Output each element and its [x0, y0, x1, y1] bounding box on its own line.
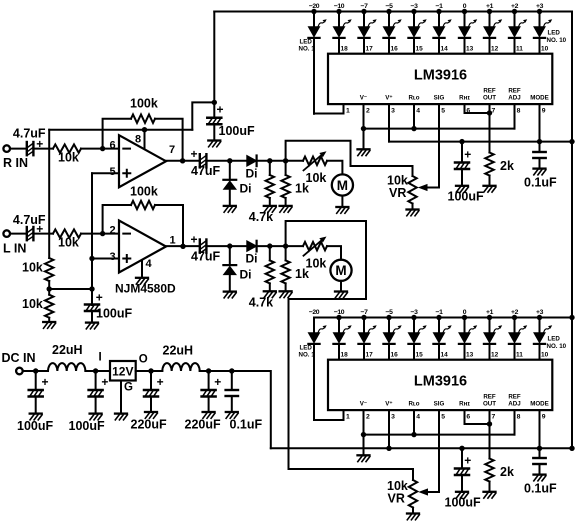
resistor R11 2k LED current set (upper) — [485, 153, 493, 176]
LED D3 −7 dB (upper) — [358, 12, 376, 38]
wire LED cathode to pin 18 (upper) — [338, 38, 340, 54]
wire R6 to ground — [48, 318, 50, 322]
wire pin2 V- to ground (lower) — [363, 410, 365, 455]
V+ rail (lower) — [271, 447, 572, 449]
regulator ground lead — [120, 381, 122, 414]
wire U1b output — [166, 245, 200, 247]
svg-text:−1: −1 — [436, 3, 444, 10]
svg-text:MODE: MODE — [530, 95, 549, 102]
svg-text:NJM4580D: NJM4580D — [115, 282, 176, 296]
node LED anode −1 (lower) — [436, 315, 441, 320]
svg-text:2k: 2k — [500, 159, 514, 173]
wire L input — [10, 233, 27, 235]
wire pin6 RHI to pin7 (upper) — [465, 104, 490, 113]
node LED anode +3 (upper) — [537, 9, 542, 14]
svg-text:18: 18 — [341, 46, 349, 53]
capacitor C11 220uF — [150, 371, 152, 390]
node pin4 on ground line (lower) — [411, 432, 416, 437]
LED D1 −20 dB (lower) — [308, 318, 326, 344]
node pin9 on V+ rail (upper) — [537, 139, 542, 144]
svg-text:47uF: 47uF — [191, 164, 221, 178]
svg-text:G: G — [124, 382, 133, 394]
svg-text:14: 14 — [441, 46, 449, 53]
ground R11 — [484, 186, 496, 192]
wire pin4 RLO stub (upper) — [413, 104, 415, 129]
svg-text:OUT: OUT — [483, 401, 496, 408]
capacitor C4 47uF coupling — [200, 240, 207, 253]
svg-text:+2: +2 — [511, 309, 519, 316]
ground C10 — [90, 414, 102, 420]
svg-text:NO. 10: NO. 10 — [547, 37, 567, 44]
node LED bus to right bus (lower) — [569, 315, 574, 320]
svg-text:10k: 10k — [306, 171, 327, 185]
svg-text:7: 7 — [492, 414, 496, 421]
svg-text:3: 3 — [391, 108, 395, 115]
capacitor C12 220uF — [208, 371, 210, 390]
svg-text:V⁻: V⁻ — [360, 95, 367, 102]
resistor R10 1k — [285, 246, 287, 260]
svg-text:17: 17 — [366, 352, 374, 359]
LED D8 +1 dB (lower) — [484, 318, 502, 344]
svg-text:12V: 12V — [112, 364, 133, 378]
svg-text:ADJ: ADJ — [508, 401, 521, 408]
svg-text:LM3916: LM3916 — [414, 68, 467, 84]
ground C9 — [30, 414, 42, 420]
node pin2 on ground line (upper) — [361, 126, 366, 131]
svg-text:2: 2 — [366, 108, 370, 115]
V+ branch wire to bias divider — [48, 130, 50, 258]
node V+ rail / C7 (upper) — [459, 139, 464, 144]
resistor R1 10k — [53, 144, 81, 152]
svg-text:13: 13 — [466, 352, 474, 359]
svg-text:100k: 100k — [130, 97, 158, 111]
svg-text:4: 4 — [416, 108, 420, 115]
wire LED cathode to pin 10 (lower) — [539, 344, 541, 360]
svg-text:+: + — [101, 375, 108, 389]
node pin3 on V+ rail (lower) — [386, 446, 391, 451]
node U1b output / feedback — [180, 244, 185, 249]
V+ riser wire to top rail — [192, 102, 214, 129]
node LED anode −5 (lower) — [386, 315, 391, 320]
svg-text:NO. 1: NO. 1 — [299, 45, 316, 52]
wire LED cathode to pin 13 (lower) — [464, 344, 466, 360]
LED D2 −10 dB (upper) — [333, 12, 351, 38]
ground U1b pin4 — [136, 278, 148, 284]
capacitor C7 100uF (upper) — [461, 142, 463, 163]
wire R input — [10, 148, 27, 150]
wire LED1 cathode down left side (upper) — [313, 38, 315, 114]
resistor R2 10k — [53, 229, 81, 237]
svg-text:−3: −3 — [411, 309, 419, 316]
svg-text:MODE: MODE — [530, 401, 549, 408]
node LED anode −5 (upper) — [386, 9, 391, 14]
pot VR3 10k level adjust (upper) — [408, 176, 416, 204]
LED D1 −20 dB (upper) — [308, 12, 326, 38]
LED D9 +2 dB (upper) — [509, 12, 527, 38]
wire LED cathode to pin 13 (upper) — [464, 38, 466, 54]
node regulator input / C10 — [93, 368, 98, 373]
svg-text:5: 5 — [110, 166, 116, 178]
bias rail vertical (half supply) — [91, 173, 93, 305]
LED D5 −3 dB (upper) — [408, 12, 426, 38]
wire pin2 V- to ground (upper) — [363, 104, 365, 149]
wire C2 to R2 — [33, 233, 53, 235]
wire C3 to rectifier R — [206, 160, 246, 162]
capacitor C3 47uF coupling — [200, 154, 207, 167]
svg-text:Rʜɪ: Rʜɪ — [459, 401, 470, 408]
svg-text:−20: −20 — [309, 309, 320, 316]
svg-text:V⁻: V⁻ — [360, 401, 367, 408]
svg-text:−5: −5 — [386, 3, 394, 10]
capacitor C9 100uF input filter — [35, 371, 37, 390]
wire LED cathode to pin 11 (lower) — [514, 344, 516, 360]
node LED anode +1 (upper) — [487, 9, 492, 14]
svg-text:10k: 10k — [58, 236, 79, 250]
svg-text:6: 6 — [466, 414, 470, 421]
svg-text:100k: 100k — [130, 185, 158, 199]
svg-text:−10: −10 — [334, 309, 345, 316]
wire regulator output — [136, 370, 163, 372]
LED supply bus (lower) — [314, 317, 572, 319]
svg-text:R IN: R IN — [3, 156, 28, 170]
node U1b inverting input — [100, 231, 105, 236]
capacitor C13 0.1uF — [231, 371, 233, 390]
wire LED1 cathode down left side (lower) — [313, 344, 315, 420]
node LED anode −20 (upper) — [311, 9, 316, 14]
svg-text:7: 7 — [169, 144, 175, 156]
node LED anode −10 (upper) — [336, 9, 341, 14]
svg-text:+: + — [464, 148, 471, 162]
node pin9 on V+ rail (lower) — [537, 446, 542, 451]
ground C11 — [145, 412, 157, 418]
svg-text:12: 12 — [491, 46, 499, 53]
svg-text:18: 18 — [341, 352, 349, 359]
wire pin1 to LED1 cathode (upper) — [314, 104, 344, 113]
op-amp U1a pin 8 V+ stub — [144, 130, 146, 150]
wire LED cathode to pin 18 (lower) — [338, 344, 340, 360]
feedback wire to output node — [155, 119, 183, 161]
svg-text:0.1uF: 0.1uF — [230, 418, 263, 432]
LED D3 −7 dB (lower) — [358, 318, 376, 344]
diode D2 shunt (R channel) — [229, 161, 231, 180]
ground C14 — [456, 492, 468, 498]
svg-text:220uF: 220uF — [185, 418, 221, 432]
feedback wire to output node L — [155, 205, 183, 247]
svg-text:5: 5 — [441, 414, 445, 421]
wire LED cathode to pin 17 (upper) — [363, 38, 365, 54]
U1b plus sign — [123, 255, 130, 262]
svg-text:VR: VR — [389, 186, 406, 200]
V+ wire up to LED bus — [213, 12, 215, 103]
wire pin5 SIG to VR3 wiper (upper) — [427, 104, 439, 187]
wire divider midpoint to bias rail — [49, 288, 92, 290]
svg-text:9: 9 — [542, 108, 546, 115]
svg-text:1: 1 — [346, 108, 350, 115]
svg-text:−7: −7 — [361, 309, 369, 316]
node pin6-pin7 junction (lower) — [487, 421, 492, 426]
node LED anode −7 (lower) — [361, 315, 366, 320]
svg-text:M: M — [337, 178, 348, 193]
svg-text:100uF: 100uF — [17, 419, 53, 433]
wire pin9 MODE to V+ (lower) — [539, 410, 541, 458]
ground line pins 2-4-8 (upper) — [364, 128, 515, 130]
voltage regulator U2 12V — [110, 361, 136, 381]
svg-text:16: 16 — [391, 46, 399, 53]
wire LED cathode to pin 12 (lower) — [489, 344, 491, 360]
svg-text:−7: −7 — [361, 3, 369, 10]
svg-text:22uH: 22uH — [52, 343, 83, 357]
meter M1 (R channel VU) — [332, 174, 353, 195]
ground C13 — [226, 412, 238, 418]
capacitor C14 100uF (lower) — [461, 448, 463, 468]
svg-text:100uF: 100uF — [445, 496, 481, 510]
svg-text:+: + — [96, 291, 103, 305]
svg-text:−1: −1 — [436, 309, 444, 316]
node V+ rail / C14 (lower) — [459, 446, 464, 451]
wire LED cathode to pin 12 (upper) — [489, 38, 491, 54]
svg-text:V⁺: V⁺ — [385, 401, 392, 408]
node pin8 on V+ line — [142, 127, 147, 132]
svg-text:Di: Di — [240, 182, 252, 196]
svg-text:0.1uF: 0.1uF — [524, 482, 557, 496]
svg-text:8: 8 — [517, 414, 521, 421]
svg-text:8: 8 — [517, 108, 521, 115]
wire pin7 REF OUT to R12 (lower) — [489, 410, 491, 458]
LED D9 +2 dB (lower) — [509, 318, 527, 344]
node V+ rail to right bus (lower) — [569, 446, 574, 451]
wire pin4 RLO stub (lower) — [413, 410, 415, 435]
node R9 1k / signal takeoff — [283, 158, 288, 163]
node divider midpoint — [47, 286, 52, 291]
node U1a inverting input — [100, 146, 105, 151]
wire LED cathode to pin 17 (lower) — [363, 344, 365, 360]
wire D3 to load L — [257, 245, 303, 247]
V+ distribution wire to op-amp pin8 — [49, 129, 192, 131]
svg-text:+: + — [42, 375, 49, 389]
wire D1 to load R — [257, 160, 303, 162]
ground R10 — [280, 291, 292, 297]
LED D10 +3 dB (upper) — [534, 12, 552, 38]
capacitor C10 100uF — [95, 371, 97, 390]
wire C1 to R1 — [33, 148, 53, 150]
svg-text:REF: REF — [483, 88, 496, 95]
LED supply bus (upper) — [214, 11, 572, 13]
svg-text:+: + — [191, 147, 198, 161]
svg-text:SIG: SIG — [434, 401, 445, 408]
node LED anode −10 (lower) — [336, 315, 341, 320]
wire L2 to output caps — [200, 370, 232, 372]
LED D6 −1 dB (lower) — [433, 318, 451, 344]
IC U LM3916 body (upper) — [328, 54, 552, 104]
svg-text:OUT: OUT — [483, 95, 496, 102]
wire VR1 to meter M1 — [327, 161, 342, 175]
ground M2 — [335, 292, 347, 298]
wire bias to U1a noninverting input — [92, 172, 119, 174]
node R10 1k / signal takeoff L — [283, 243, 288, 248]
ground C5 — [86, 323, 98, 329]
feedback loop wire L op-amp — [103, 205, 131, 234]
node LED anode 0 (upper) — [462, 9, 467, 14]
svg-text:2: 2 — [366, 414, 370, 421]
svg-text:4.7uF: 4.7uF — [13, 213, 46, 227]
capacitor C15 0.1uF (lower) — [533, 458, 545, 464]
svg-text:LED: LED — [548, 30, 561, 37]
resistor R4 100k feedback — [131, 201, 155, 209]
node regulator output / C11 — [148, 368, 153, 373]
wire DC input — [23, 370, 48, 372]
node LED anode +2 (upper) — [512, 9, 517, 14]
LED D4 −5 dB (upper) — [383, 12, 401, 38]
svg-text:100uF: 100uF — [69, 419, 105, 433]
U1b pin 4 ground stub — [141, 261, 143, 278]
ground pin2 (lower) — [358, 455, 370, 461]
svg-text:SIG: SIG — [434, 95, 445, 102]
svg-text:LED: LED — [548, 336, 561, 343]
capacitor C5 100uF bias decoupling — [85, 305, 99, 312]
diode D1 series (R channel) — [247, 156, 257, 167]
terminal J2 L IN — [3, 230, 10, 237]
node pin6-pin7 junction (upper) — [487, 110, 492, 115]
node shunt diode L — [227, 243, 232, 248]
svg-text:+2: +2 — [511, 3, 519, 10]
svg-text:16: 16 — [391, 352, 399, 359]
LED D2 −10 dB (lower) — [333, 318, 351, 344]
wire LED cathode to pin 15 (lower) — [413, 344, 415, 360]
svg-text:10k: 10k — [58, 151, 79, 165]
ground R7 — [264, 206, 276, 212]
U1a minus sign — [123, 148, 130, 150]
svg-text:11: 11 — [516, 352, 523, 359]
svg-text:100uF: 100uF — [219, 124, 255, 138]
svg-text:4: 4 — [146, 258, 153, 270]
svg-text:10: 10 — [541, 352, 549, 359]
ground C15 — [534, 475, 546, 481]
svg-text:−10: −10 — [334, 3, 345, 10]
ground divider — [43, 322, 55, 328]
svg-text:+: + — [191, 233, 198, 247]
inductor L2 22uH — [162, 363, 199, 371]
svg-text:47uF: 47uF — [191, 250, 221, 264]
svg-text:4.7k: 4.7k — [249, 296, 273, 310]
wire pin8 REF ADJ to ground line (upper) — [514, 104, 516, 129]
svg-text:Rʟᴏ: Rʟᴏ — [408, 95, 419, 102]
node V+ rail to right bus (upper) — [569, 139, 574, 144]
svg-text:NO. 10: NO. 10 — [547, 343, 567, 350]
wire U1a output — [166, 160, 200, 162]
meter M2 (L channel VU) — [330, 260, 351, 281]
svg-text:−3: −3 — [411, 3, 419, 10]
svg-text:Rʜɪ: Rʜɪ — [459, 95, 470, 102]
ground R12 — [484, 492, 496, 498]
op-amp U1a triangle — [119, 135, 166, 187]
wire LED cathode to pin 11 (upper) — [514, 38, 516, 54]
capacitor C2 4.7uF coupling — [27, 227, 34, 240]
svg-text:2: 2 — [110, 224, 116, 236]
node R8 4.7k — [267, 243, 272, 248]
svg-text:REF: REF — [508, 394, 521, 401]
wire pin3 V+ stub (lower) — [388, 410, 390, 448]
svg-text:10k: 10k — [306, 256, 327, 270]
svg-text:V⁺: V⁺ — [385, 95, 392, 102]
svg-text:6: 6 — [110, 139, 116, 151]
svg-text:3: 3 — [391, 414, 395, 421]
ground U2 — [115, 414, 127, 420]
wire R1 to op-amp pin6 — [81, 148, 119, 150]
svg-text:ADJ: ADJ — [508, 95, 521, 102]
svg-text:100uF: 100uF — [96, 307, 132, 321]
svg-text:22uH: 22uH — [163, 344, 194, 358]
svg-text:+3: +3 — [536, 309, 544, 316]
resistor R5 10k divider upper — [45, 258, 53, 281]
node V+ / C6 — [212, 100, 217, 105]
wire +12V feed to lower LM3916 rail — [232, 371, 271, 448]
IC U LM3916 body (lower) — [328, 360, 552, 410]
V+ rail (upper) — [389, 141, 572, 143]
node LED anode +3 (lower) — [537, 315, 542, 320]
wire C4 to rectifier L — [206, 245, 246, 247]
svg-text:VR: VR — [388, 492, 405, 506]
svg-text:REF: REF — [508, 88, 521, 95]
terminal J3 DC IN — [16, 368, 23, 375]
node DC input / C9 — [33, 368, 38, 373]
capacitor C6 100uF supply decoupling — [213, 102, 215, 117]
resistor R8 4.7k — [269, 246, 271, 260]
wire pin6 RHI to pin7 (lower) — [465, 410, 490, 424]
svg-text:100uF: 100uF — [448, 190, 484, 204]
ground R9 — [280, 206, 292, 212]
svg-text:9: 9 — [542, 414, 546, 421]
terminal J1 R IN — [3, 145, 10, 152]
svg-text:13: 13 — [466, 46, 474, 53]
svg-text:220uF: 220uF — [131, 418, 167, 432]
wire LED cathode to pin 15 (upper) — [413, 38, 415, 54]
svg-text:+1: +1 — [486, 3, 494, 10]
diode D4 shunt (L channel) — [229, 246, 231, 265]
resistor R7 4.7k — [269, 161, 271, 175]
node LED anode +1 (lower) — [487, 315, 492, 320]
svg-text:+1: +1 — [486, 309, 494, 316]
capacitor C8 0.1uF (upper) — [533, 152, 545, 158]
svg-text:I: I — [99, 352, 102, 364]
svg-text:1: 1 — [170, 234, 176, 246]
svg-text:3: 3 — [110, 251, 116, 263]
svg-text:+: + — [464, 454, 471, 468]
diode D3 series (L channel) — [247, 241, 257, 252]
svg-text:15: 15 — [416, 352, 424, 359]
svg-text:4: 4 — [416, 414, 420, 421]
svg-text:10k: 10k — [22, 297, 43, 311]
feedback loop wire R op-amp — [103, 119, 131, 149]
wire pin8 REF ADJ to ground line (lower) — [514, 410, 516, 435]
wire R2 to op-amp pin2 — [81, 233, 119, 235]
ground VR4 — [407, 514, 419, 520]
wire LED cathode to pin 14 (lower) — [438, 344, 440, 360]
U1b minus sign — [123, 233, 130, 235]
svg-text:+: + — [157, 375, 164, 389]
svg-text:−5: −5 — [386, 309, 394, 316]
svg-text:−20: −20 — [309, 3, 320, 10]
svg-text:Di: Di — [240, 268, 252, 282]
wire pin9 MODE to V+ (upper) — [539, 104, 541, 152]
node pin4 on ground line (upper) — [411, 126, 416, 131]
svg-text:Di: Di — [246, 252, 258, 266]
inductor L1 22uH — [48, 363, 85, 371]
ground C12 — [203, 412, 215, 418]
resistor R9 1k — [285, 161, 287, 175]
node bias / pin3 branch — [89, 256, 94, 261]
wire L1 to regulator — [85, 370, 110, 372]
U1a plus sign — [123, 170, 130, 177]
